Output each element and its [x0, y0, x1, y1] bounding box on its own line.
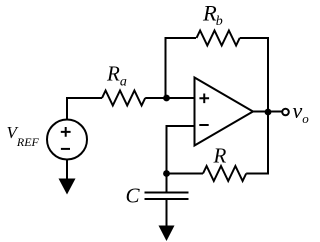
wire from Ra to op-amp noninverting input through node A	[145, 97, 194, 99]
svg-text:Ra: Ra	[106, 62, 127, 90]
svg-text:C: C	[126, 184, 141, 208]
resistor Ra	[102, 91, 145, 106]
minus sign inside VREF	[61, 148, 70, 150]
wire from R right end up to right rail bottom	[246, 112, 268, 174]
wire from capacitor bottom plate to ground arrow	[166, 200, 168, 226]
capacitor C bottom plate	[145, 198, 189, 200]
op-amp plus input marking	[199, 94, 209, 104]
wire from node A up to top-left corner of Rb branch	[166, 38, 197, 98]
ground arrow below capacitor	[159, 226, 175, 242]
output terminal open circle	[282, 109, 289, 116]
wire from VREF bottom to ground arrow	[66, 160, 68, 180]
wire from VREF top up and right to Ra	[67, 98, 102, 120]
wire from node B to R left end	[167, 173, 204, 175]
plus sign inside VREF	[61, 127, 71, 137]
svg-text:R: R	[213, 144, 227, 168]
op-amp U1 triangle	[195, 78, 254, 146]
resistor Rb	[197, 31, 240, 46]
resistor R	[203, 166, 246, 181]
junction node A at noninverting input	[163, 95, 170, 102]
op-amp minus input marking	[199, 124, 208, 126]
wire from inverting input left and down to node B	[167, 126, 195, 174]
svg-text:vo: vo	[293, 98, 310, 126]
wire from node B down to capacitor top plate	[166, 174, 168, 192]
wire from op-amp output to terminal	[253, 111, 282, 113]
capacitor C top plate	[145, 192, 189, 194]
wire from Rb right end down right rail to output node	[240, 38, 268, 112]
svg-text:Rb: Rb	[202, 1, 223, 30]
junction node at output rail	[265, 109, 272, 116]
voltage source VREF circle	[47, 120, 87, 160]
junction node B at inverting branch	[163, 170, 170, 177]
svg-text:VREF: VREF	[7, 123, 40, 149]
ground arrow below VREF	[59, 179, 76, 195]
